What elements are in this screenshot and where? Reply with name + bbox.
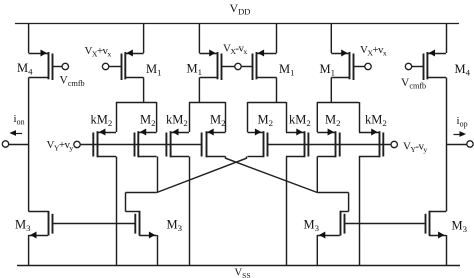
label kM2 8th <box>365 113 387 129</box>
transistor M2 (4th) <box>202 129 226 158</box>
label VY-vy <box>403 141 427 155</box>
label M1 d <box>320 62 336 78</box>
label Vcmfb left <box>60 75 85 89</box>
wire pair1 hat <box>116 102 157 132</box>
terminal i_op output <box>446 141 473 147</box>
label VY+vy <box>47 139 74 153</box>
label kM2 3rd <box>166 113 188 129</box>
wire VDD to M1d source <box>330 23 332 53</box>
wire V_SS rail <box>17 265 460 267</box>
label kM2 6th <box>289 113 311 129</box>
wire M2-7 source down to right M3 hat <box>316 157 318 193</box>
transistor kM2 (8th) <box>359 129 383 158</box>
label Vcmfb right <box>401 77 426 91</box>
node V_SS label <box>235 268 251 278</box>
wire M1b drain to pair2 hat <box>198 78 200 103</box>
wire pair4 hat <box>317 102 359 132</box>
label i_on <box>14 113 25 127</box>
wire M2-2 source down to left M3 hat <box>157 157 159 193</box>
label M2 2nd <box>140 113 156 129</box>
wire VDD to M4 right source <box>446 23 448 53</box>
wire M1d drain to pair4 hat <box>330 78 332 103</box>
label i_op <box>457 115 468 129</box>
wire VDD to M4 left source <box>28 23 30 53</box>
label VX+vx right <box>360 44 387 58</box>
label M3 center-left <box>167 218 183 234</box>
label M4 left <box>17 61 33 77</box>
transistor M2 (5th) <box>248 129 268 158</box>
wire VDD to M1c source <box>276 23 278 53</box>
node V_DD label <box>230 1 251 17</box>
wire M4 right drain down to M3 right drain <box>446 78 448 212</box>
wire pair2 hat <box>189 102 226 132</box>
wire V_DD rail <box>15 23 459 25</box>
label M3 right <box>452 219 468 235</box>
wire VDD to M1b source <box>198 23 200 53</box>
wire M3 center-left source to VSS <box>157 235 159 265</box>
transistor M1 (b, center-left PMOS) <box>199 50 235 81</box>
svg-text:VY​+vy​: VY​+vy​ <box>47 139 74 153</box>
wire kM2-8 source to VSS <box>359 157 361 266</box>
transistor kM2 (1st) <box>93 129 116 158</box>
terminal VX-vx input circle <box>235 63 241 69</box>
wire kM2-6 source to VSS <box>286 157 288 266</box>
transistor M3 (left NMOS) <box>29 211 53 239</box>
wire M2-4 source cross to right M3 hat <box>226 157 318 193</box>
transistor M3 (center-left NMOS) <box>126 211 157 239</box>
svg-text:VX​+vx​: VX​+vx​ <box>360 44 387 58</box>
wire M3 center-right source to VSS <box>316 235 318 265</box>
transistor kM2 (3rd) <box>166 129 189 158</box>
transistor M3 (right NMOS) <box>426 211 447 239</box>
label VX-vx center <box>223 43 247 57</box>
wire pair3 hat <box>248 102 287 132</box>
transistor M3 (center-right NMOS) <box>317 211 348 239</box>
label M1 b <box>187 62 203 78</box>
label M2 4th <box>210 113 226 129</box>
label M1 a <box>146 62 162 78</box>
label kM2 1st <box>91 113 113 129</box>
transistor M1 (c, center-right PMOS) <box>241 50 277 81</box>
transistor M2 (2nd) <box>135 129 157 158</box>
wire kM2-1 source to VSS <box>116 157 118 266</box>
transistor M4 (left PMOS) <box>29 50 69 81</box>
arrow i_on current direction <box>10 130 23 136</box>
terminal VY+vy input <box>74 141 202 147</box>
arrow i_op current direction <box>454 131 467 137</box>
wire M1a drain to pair1 hat <box>143 78 145 103</box>
label M1 c <box>279 62 295 78</box>
wire M3 right source to VSS <box>446 235 448 265</box>
transistor kM2 (6th) <box>286 129 308 158</box>
wire M2-5 source cross to left M3 hat <box>157 157 247 193</box>
transistor M4 (right PMOS) <box>405 50 446 81</box>
wire left M3 hat <box>126 193 157 212</box>
label VX+vx left <box>85 45 112 59</box>
wire M3 gate line right pair <box>344 223 425 225</box>
wire right M3 hat <box>317 193 348 212</box>
transistor M2 (7th) <box>317 129 339 158</box>
terminal VY-vy input <box>267 141 397 147</box>
terminal i_on output <box>2 141 28 147</box>
wire VDD to M1a source <box>143 23 145 53</box>
label M3 center-right <box>304 218 320 234</box>
label M3 left <box>15 218 31 234</box>
label M4 right <box>455 62 471 78</box>
wire M4 left drain down to M3 left drain <box>28 78 30 212</box>
transistor M1 (a, outer left PMOS) <box>102 50 143 81</box>
label M2 5th <box>258 113 274 129</box>
wire M3 gate line left pair <box>52 223 135 225</box>
label M2 7th <box>325 113 341 129</box>
wire M3 left source to VSS <box>28 235 30 265</box>
wire kM2-3 source to VSS <box>189 157 191 266</box>
wire M1c drain to pair3 hat <box>276 78 278 103</box>
transistor M1 (d, outer right PMOS) <box>331 50 371 81</box>
svg-text:VX​+vx​: VX​+vx​ <box>85 45 112 59</box>
